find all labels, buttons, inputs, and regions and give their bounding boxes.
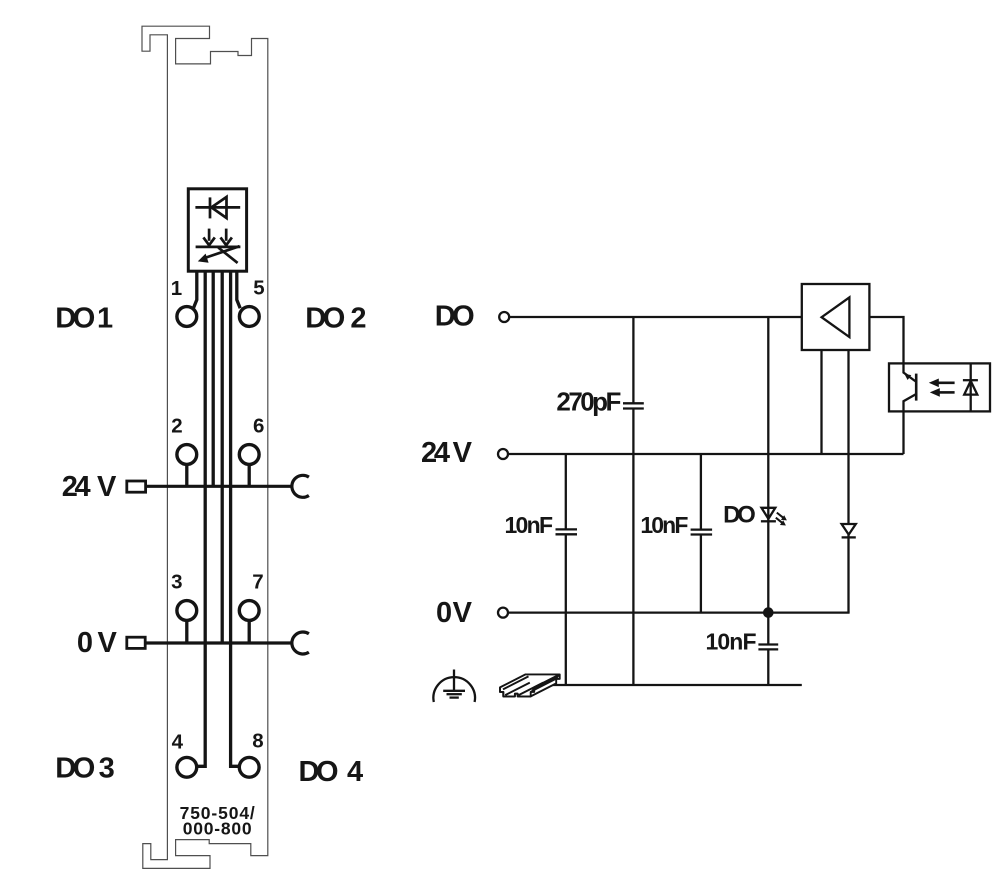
capacitor C2 10nF xyxy=(556,529,578,534)
LED indicator symbol inside LED box xyxy=(196,229,241,263)
contact 3 stub xyxy=(185,620,188,643)
svg-text:DO: DO xyxy=(55,752,95,784)
svg-text:V: V xyxy=(97,471,117,503)
24V rail in module xyxy=(146,485,292,488)
0V plug symbol xyxy=(127,637,145,648)
svg-text:V: V xyxy=(97,627,117,659)
svg-text:DO: DO xyxy=(723,501,756,528)
diode D2 xyxy=(842,524,856,537)
svg-text:1: 1 xyxy=(97,302,113,334)
svg-text:DO: DO xyxy=(299,756,339,788)
contact 8 circle xyxy=(239,757,259,777)
24V plug symbol xyxy=(127,481,146,492)
wire 10nF branch 1 lower to earth xyxy=(565,534,567,685)
svg-text:000-800: 000-800 xyxy=(183,819,252,839)
svg-text:V: V xyxy=(453,597,473,629)
wire 10nF branch 2 lower to 0V xyxy=(700,535,702,613)
driver U2 box xyxy=(802,284,870,350)
node DO terminal xyxy=(499,312,509,322)
contact 6 stub xyxy=(248,464,251,486)
24V spring clamp symbol xyxy=(292,475,309,497)
0V spring clamp symbol xyxy=(292,632,309,654)
contact 4 circle xyxy=(177,757,197,777)
wire w3 to 24V rail xyxy=(212,272,215,487)
capacitor C1 270pF xyxy=(623,403,644,408)
svg-text:0: 0 xyxy=(436,597,452,629)
contact 5 circle xyxy=(239,307,259,327)
svg-text:2: 2 xyxy=(171,414,182,437)
svg-text:DO: DO xyxy=(435,301,475,333)
svg-text:DO: DO xyxy=(305,302,345,334)
wire 0V rail xyxy=(508,611,849,613)
module 750-504 housing outline xyxy=(142,26,268,868)
capacitor C3 10nF xyxy=(691,530,713,535)
opto LED diode xyxy=(963,363,978,411)
wire w5 to contact 8 xyxy=(231,272,239,767)
svg-text:7: 7 xyxy=(252,570,263,593)
wire diode to 0V xyxy=(847,535,849,613)
wire 10nF branch 1 upper xyxy=(565,454,567,529)
svg-text:DO: DO xyxy=(55,302,95,334)
contact 7 circle xyxy=(239,601,259,621)
wire 10nF branch 2 upper xyxy=(700,454,702,530)
contact 6 circle xyxy=(239,445,259,465)
contact 2 circle xyxy=(177,445,197,465)
svg-text:10nF: 10nF xyxy=(505,512,554,538)
opto LED arrows xyxy=(929,379,955,397)
svg-text:10nF: 10nF xyxy=(706,629,757,655)
wire w6 to contact 5 xyxy=(237,272,240,309)
wire w2 to contact 4 xyxy=(198,272,206,767)
LED DO indicator xyxy=(761,508,776,522)
wire opto emitter to 24V rail xyxy=(902,411,904,454)
driver U2 triangle xyxy=(822,297,850,337)
wire DO horizontal xyxy=(509,316,801,318)
DIN carrier rail symbol xyxy=(500,674,560,696)
wire C4 to earth line xyxy=(767,649,769,685)
opto transistor arrowhead xyxy=(904,374,911,380)
svg-text:0: 0 xyxy=(77,627,93,659)
svg-text:V: V xyxy=(453,437,473,469)
status LED box U1 xyxy=(188,189,246,271)
svg-text:1: 1 xyxy=(171,277,182,300)
wire driver output to opto xyxy=(869,317,903,363)
contact 2 stub xyxy=(185,464,188,486)
wire junction to C4 xyxy=(767,613,769,645)
svg-text:10nF: 10nF xyxy=(640,512,688,538)
svg-text:6: 6 xyxy=(253,414,264,437)
0V rail in module xyxy=(146,641,292,644)
wire driver pin right down xyxy=(847,350,849,524)
wire w1 to contact 1 xyxy=(193,272,196,309)
LED light arrows xyxy=(776,513,787,526)
node 0V terminal xyxy=(498,608,508,618)
wire DO-LED branch xyxy=(767,317,769,613)
svg-text:270pF: 270pF xyxy=(556,387,621,417)
svg-text:4: 4 xyxy=(347,756,363,788)
optocoupler U3 box xyxy=(889,363,990,411)
earth line xyxy=(551,684,802,686)
contact 7 stub xyxy=(248,620,251,643)
svg-text:3: 3 xyxy=(171,571,182,594)
contact 3 circle xyxy=(177,601,197,621)
svg-text:4: 4 xyxy=(172,730,184,753)
wire driver pin left to 24V xyxy=(820,350,822,454)
opto phototransistor xyxy=(904,363,917,411)
capacitor C4 10nF xyxy=(758,645,778,650)
wire w4 to 0V rail xyxy=(221,272,224,644)
svg-text:8: 8 xyxy=(252,730,263,753)
svg-text:24: 24 xyxy=(62,471,91,503)
svg-text:24: 24 xyxy=(421,437,450,469)
svg-text:5: 5 xyxy=(253,277,264,300)
svg-text:3: 3 xyxy=(99,752,115,784)
contact 1 circle xyxy=(177,307,197,327)
wire 270pF branch lower to earth xyxy=(632,409,634,686)
wire 270pF branch upper xyxy=(632,317,634,403)
functional earth symbol xyxy=(433,670,475,703)
svg-text:2: 2 xyxy=(350,302,366,334)
LED symbol arrowhead xyxy=(198,254,209,263)
node 24V terminal xyxy=(498,449,508,459)
junction dot 0V node xyxy=(763,607,774,618)
diode D1 inside LED box xyxy=(195,197,240,218)
wire 24V rail xyxy=(508,453,903,455)
